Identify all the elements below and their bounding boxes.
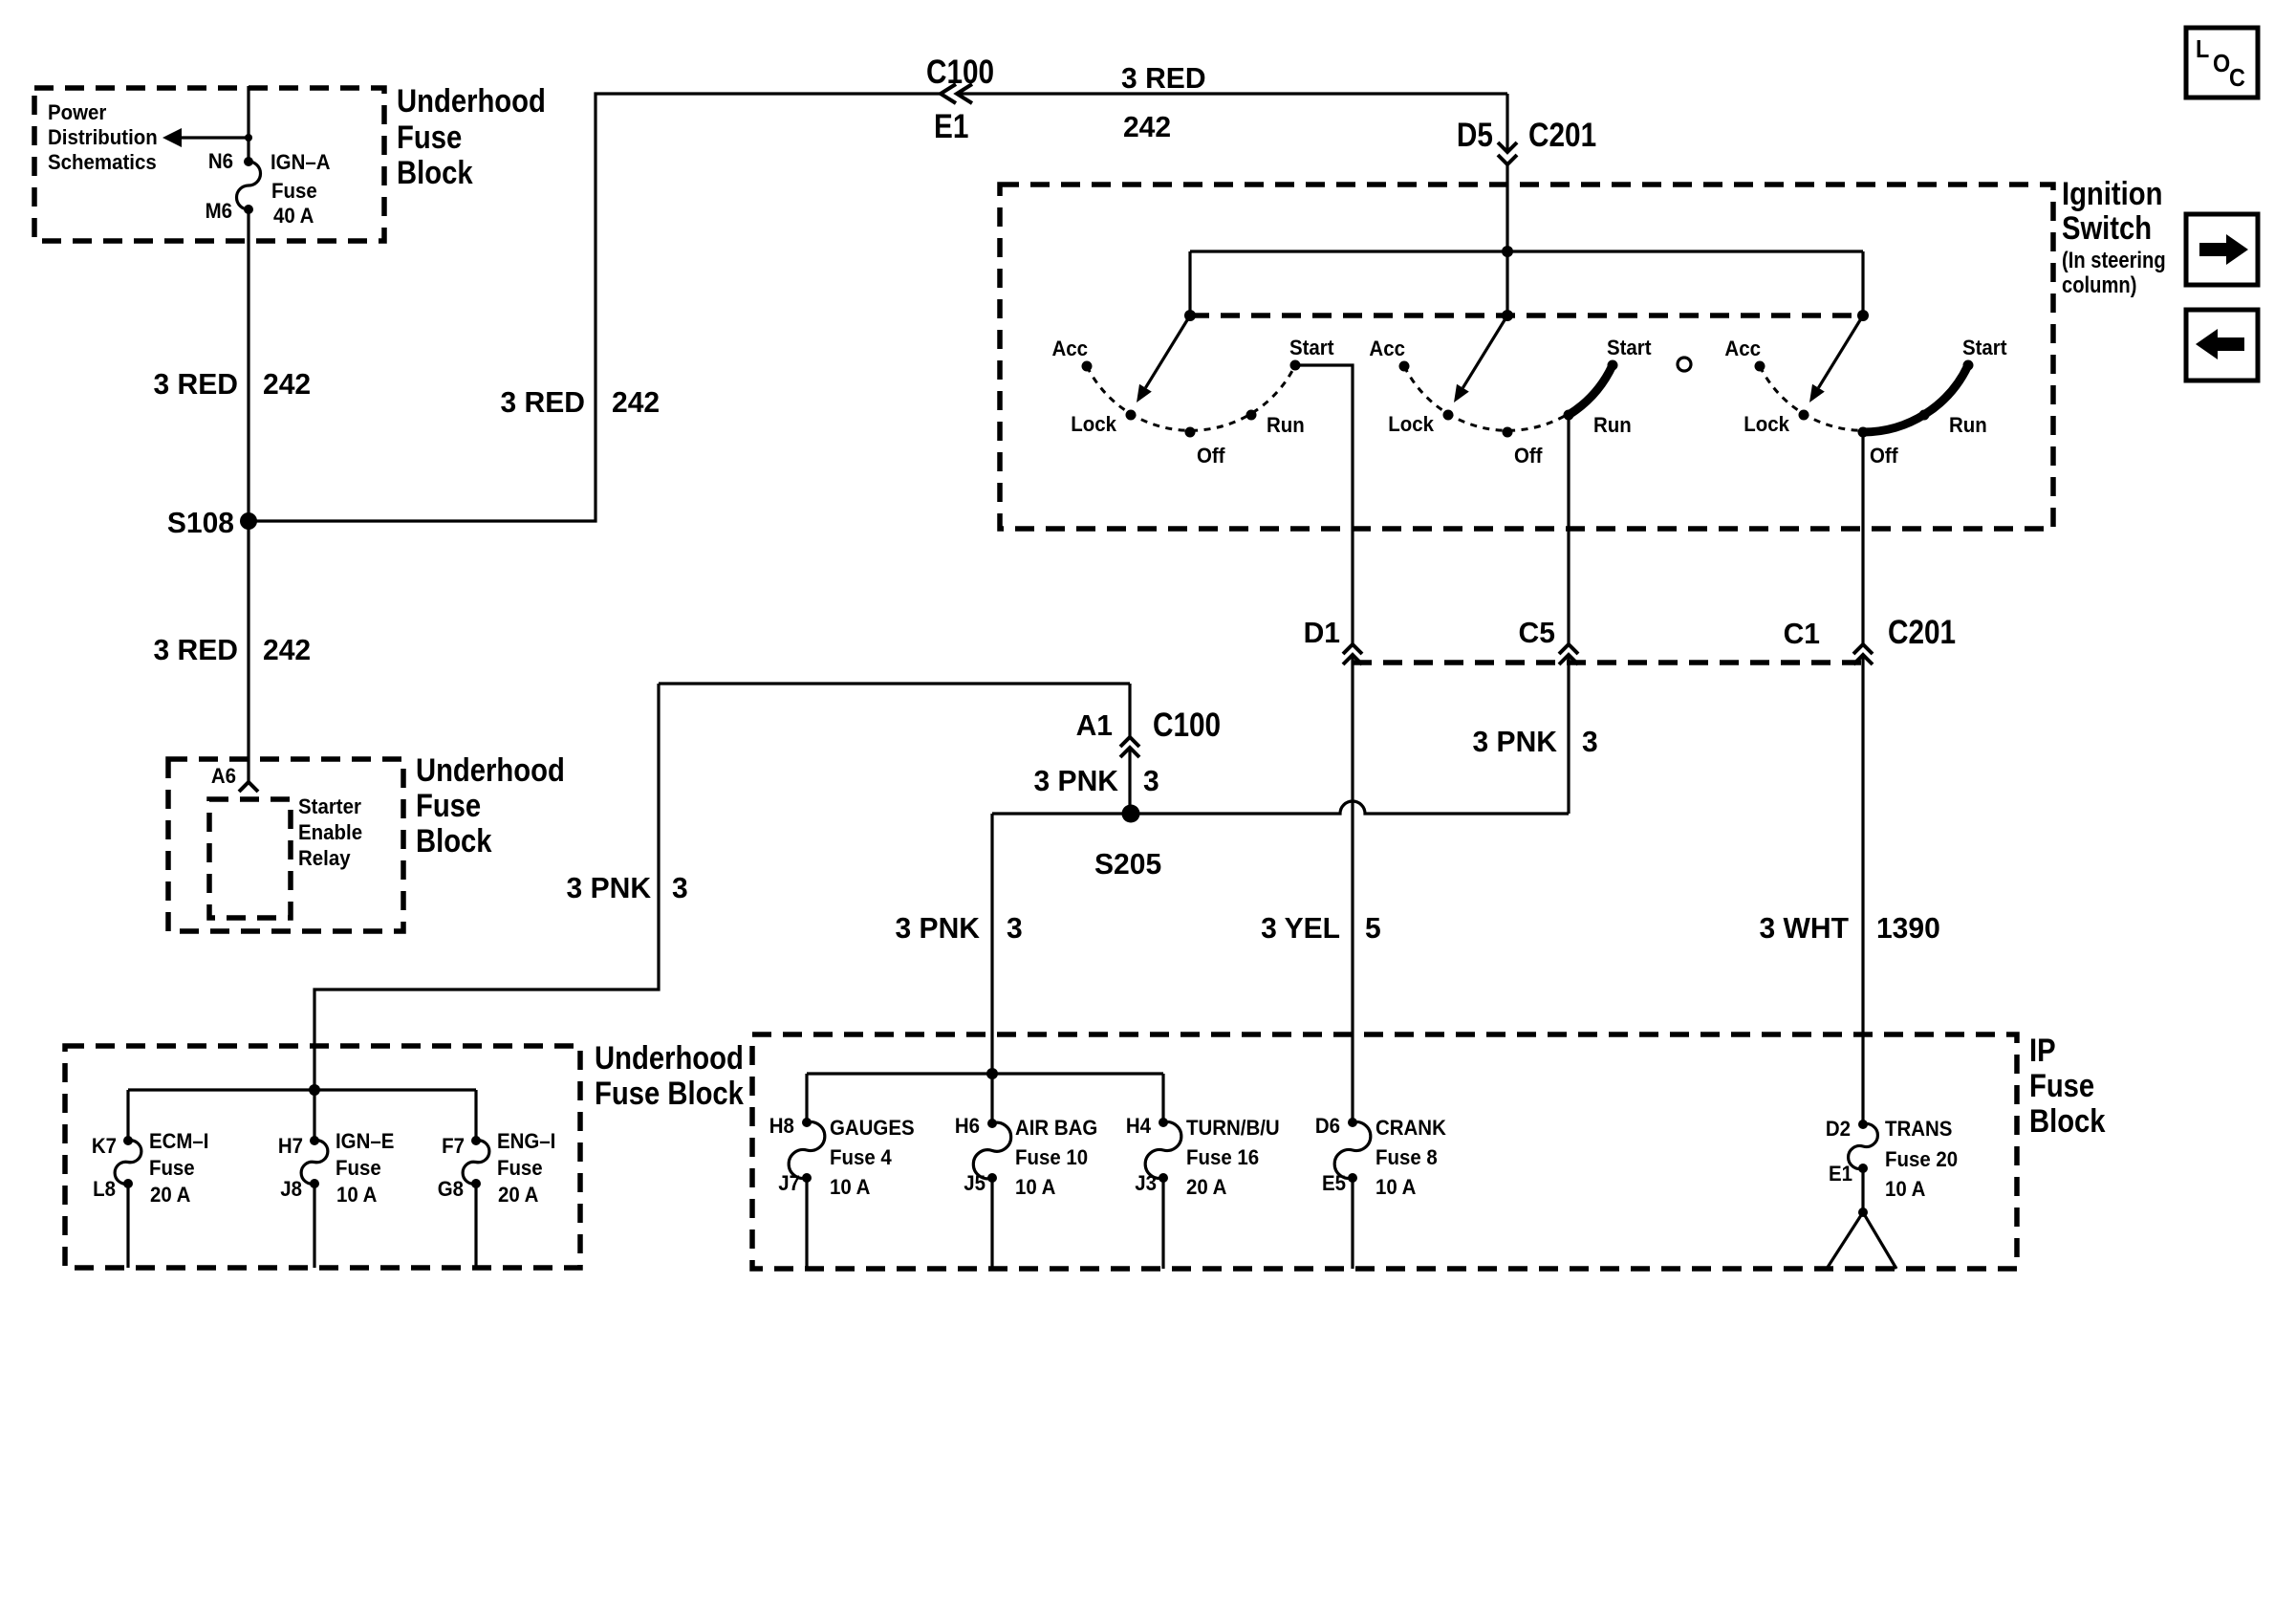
svg-text:C201: C201	[1528, 117, 1596, 154]
svg-text:E5: E5	[1322, 1171, 1346, 1195]
svg-text:Fuse 8: Fuse 8	[1375, 1145, 1438, 1169]
svg-text:Fuse Block: Fuse Block	[595, 1075, 744, 1112]
svg-text:H4: H4	[1126, 1114, 1151, 1138]
svg-text:H6: H6	[955, 1114, 980, 1138]
svg-text:C5: C5	[1519, 617, 1555, 650]
svg-text:H7: H7	[278, 1134, 303, 1158]
svg-text:G8: G8	[438, 1177, 464, 1201]
svg-text:Lock: Lock	[1388, 412, 1434, 436]
svg-text:Acc: Acc	[1052, 337, 1089, 360]
svg-text:O: O	[2213, 51, 2230, 77]
svg-text:20 A: 20 A	[1186, 1175, 1226, 1199]
svg-text:Underhood: Underhood	[416, 751, 565, 789]
svg-text:Fuse 4: Fuse 4	[830, 1145, 892, 1169]
svg-text:ECM–I: ECM–I	[149, 1129, 209, 1153]
svg-text:J8: J8	[280, 1177, 302, 1201]
svg-text:20 A: 20 A	[498, 1183, 538, 1207]
svg-text:40 A: 40 A	[273, 204, 314, 228]
svg-text:J7: J7	[778, 1171, 800, 1195]
svg-text:Start: Start	[1962, 336, 2007, 359]
svg-text:D1: D1	[1304, 617, 1340, 650]
svg-text:3 PNK: 3 PNK	[1473, 726, 1558, 759]
svg-text:Ignition: Ignition	[2062, 175, 2162, 212]
svg-text:10 A: 10 A	[1015, 1175, 1055, 1199]
svg-text:E1: E1	[934, 108, 968, 145]
svg-text:Fuse 10: Fuse 10	[1015, 1145, 1088, 1169]
svg-text:L8: L8	[93, 1177, 116, 1201]
svg-text:Fuse: Fuse	[397, 119, 462, 156]
svg-text:C1: C1	[1784, 618, 1820, 651]
svg-text:10 A: 10 A	[1375, 1175, 1416, 1199]
svg-text:Block: Block	[2029, 1102, 2106, 1140]
svg-text:E1: E1	[1829, 1162, 1852, 1186]
svg-text:Fuse 16: Fuse 16	[1186, 1145, 1259, 1169]
svg-text:Off: Off	[1870, 444, 1898, 468]
svg-text:Start: Start	[1289, 336, 1334, 359]
svg-text:N6: N6	[208, 149, 233, 173]
svg-text:3 RED: 3 RED	[1121, 62, 1206, 96]
svg-text:M6: M6	[206, 199, 233, 223]
svg-text:Distribution: Distribution	[48, 125, 158, 149]
svg-text:242: 242	[263, 634, 311, 667]
svg-text:IGN–A: IGN–A	[271, 150, 331, 174]
svg-text:S108: S108	[167, 507, 234, 540]
svg-text:3 RED: 3 RED	[153, 368, 238, 402]
svg-text:3 RED: 3 RED	[500, 386, 585, 420]
svg-text:D6: D6	[1315, 1114, 1340, 1138]
svg-text:Fuse: Fuse	[336, 1156, 381, 1180]
svg-text:Underhood: Underhood	[595, 1039, 744, 1077]
svg-text:3 PNK: 3 PNK	[1034, 765, 1119, 798]
svg-text:IP: IP	[2029, 1032, 2056, 1069]
svg-text:3 PNK: 3 PNK	[567, 872, 652, 905]
svg-text:D2: D2	[1826, 1117, 1851, 1141]
svg-text:A6: A6	[211, 764, 236, 788]
svg-text:GAUGES: GAUGES	[830, 1116, 915, 1140]
svg-text:3: 3	[1143, 765, 1159, 798]
svg-text:F7: F7	[442, 1134, 465, 1158]
svg-text:Off: Off	[1197, 444, 1225, 468]
svg-text:Block: Block	[416, 822, 492, 859]
svg-text:Acc: Acc	[1369, 337, 1405, 360]
svg-text:AIR BAG: AIR BAG	[1015, 1116, 1097, 1140]
svg-text:J3: J3	[1135, 1171, 1157, 1195]
svg-text:3 RED: 3 RED	[153, 634, 238, 667]
svg-text:Run: Run	[1593, 413, 1632, 437]
svg-text:3 WHT: 3 WHT	[1760, 912, 1850, 946]
svg-text:(In steering: (In steering	[2062, 247, 2166, 272]
svg-text:Underhood: Underhood	[397, 82, 546, 120]
svg-text:242: 242	[1123, 111, 1171, 144]
svg-text:3: 3	[1007, 912, 1023, 946]
svg-text:K7: K7	[92, 1134, 117, 1158]
svg-text:C100: C100	[1153, 707, 1221, 744]
svg-text:Start: Start	[1607, 336, 1652, 359]
svg-text:Relay: Relay	[298, 846, 351, 870]
svg-text:TRANS: TRANS	[1885, 1117, 1952, 1141]
svg-text:20 A: 20 A	[150, 1183, 190, 1207]
svg-text:1390: 1390	[1876, 912, 1940, 946]
svg-text:C: C	[2229, 65, 2245, 92]
svg-text:Acc: Acc	[1724, 337, 1761, 360]
svg-text:A1: A1	[1076, 709, 1113, 743]
svg-text:242: 242	[263, 368, 311, 402]
svg-text:Fuse: Fuse	[416, 787, 481, 824]
svg-text:Lock: Lock	[1744, 412, 1789, 436]
svg-text:Switch: Switch	[2062, 209, 2152, 247]
svg-text:242: 242	[612, 386, 660, 420]
svg-text:Fuse: Fuse	[149, 1156, 195, 1180]
svg-text:Fuse: Fuse	[2029, 1067, 2094, 1104]
svg-text:S205: S205	[1094, 848, 1161, 881]
svg-text:Lock: Lock	[1071, 412, 1116, 436]
svg-text:C100: C100	[926, 54, 994, 91]
svg-text:column): column)	[2062, 272, 2136, 297]
svg-text:J5: J5	[964, 1171, 986, 1195]
svg-text:CRANK: CRANK	[1375, 1116, 1446, 1140]
svg-text:L: L	[2196, 36, 2209, 63]
svg-text:Schematics: Schematics	[48, 150, 157, 174]
svg-text:Power: Power	[48, 100, 106, 124]
svg-text:Fuse 20: Fuse 20	[1885, 1147, 1958, 1171]
svg-text:3 YEL: 3 YEL	[1261, 912, 1340, 946]
svg-text:D5: D5	[1457, 117, 1493, 154]
svg-text:10 A: 10 A	[830, 1175, 870, 1199]
svg-text:ENG–I: ENG–I	[497, 1129, 555, 1153]
svg-text:10 A: 10 A	[336, 1183, 377, 1207]
svg-text:Enable: Enable	[298, 820, 362, 844]
svg-text:10 A: 10 A	[1885, 1177, 1925, 1201]
svg-text:C201: C201	[1888, 614, 1956, 651]
svg-text:3: 3	[1582, 726, 1598, 759]
svg-text:H8: H8	[769, 1114, 794, 1138]
svg-text:Block: Block	[397, 154, 473, 191]
svg-text:Starter: Starter	[298, 794, 361, 818]
svg-text:Run: Run	[1949, 413, 1987, 437]
svg-text:3 PNK: 3 PNK	[895, 912, 980, 946]
svg-text:IGN–E: IGN–E	[336, 1129, 394, 1153]
svg-text:Off: Off	[1514, 444, 1543, 468]
svg-text:5: 5	[1365, 912, 1381, 946]
svg-text:Fuse: Fuse	[497, 1156, 543, 1180]
svg-text:Fuse: Fuse	[271, 179, 317, 203]
svg-text:Run: Run	[1267, 413, 1305, 437]
svg-text:TURN/B/U: TURN/B/U	[1186, 1116, 1280, 1140]
svg-text:3: 3	[672, 872, 688, 905]
